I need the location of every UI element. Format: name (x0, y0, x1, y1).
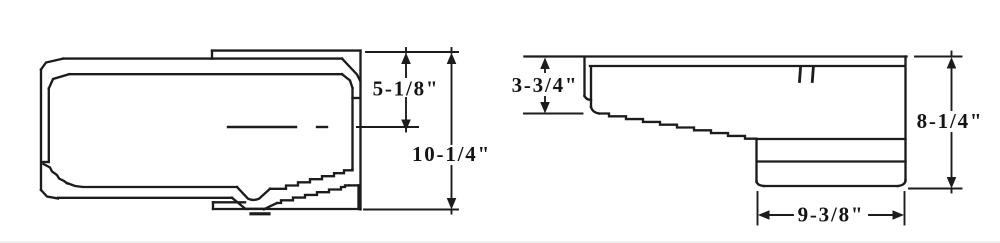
right bottom chamfer (898, 180, 906, 186)
dimension 3-3/4 arrow up (540, 58, 550, 70)
boss tab top edge (213, 201, 245, 203)
svg-text:10-1/4": 10-1/4" (412, 142, 491, 166)
inner stepped diagonal (270, 169, 353, 189)
dimension 9-3/8 shaft left (764, 214, 793, 216)
outer notch rise (264, 203, 277, 209)
extension line right of 9-3/8 (904, 192, 906, 225)
rear rail tab top edge (212, 49, 361, 51)
outer right vertical wall (359, 51, 361, 210)
crankshaft centerline dash short (317, 126, 327, 128)
extension line bottom of 3-3/4 (524, 113, 583, 115)
dimension 8-1/4 arrow up (947, 57, 957, 69)
dimension 3-3/4 shaft upper (544, 63, 546, 72)
sump bottom line (764, 185, 898, 187)
centerline extension to dimension (357, 126, 418, 128)
outer top-left corner chamfer (41, 59, 63, 70)
sump front vertical (755, 139, 757, 182)
oil pan side view (525, 57, 907, 187)
boss tab left edge (212, 202, 214, 209)
dimension 5-1/8 arrow down (401, 120, 411, 132)
inner right tick (353, 97, 360, 99)
top extension line of 8-1/4 (915, 56, 962, 58)
svg-text:8-1/4": 8-1/4" (917, 109, 984, 133)
dim overshoot stub below centerline at 5-1/8 (405, 127, 407, 132)
outer bottom edge left run (58, 197, 232, 199)
inner left tick (43, 161, 49, 163)
rail top edge (525, 55, 907, 57)
inner right vertical (351, 88, 353, 169)
dimension 10-1/4 shaft upper (451, 58, 453, 144)
tick mark 2 on rail (812, 68, 813, 82)
oil pan top view: inner flange outline (43, 74, 360, 200)
outer left vertical wall (40, 70, 42, 191)
crankshaft centerline dash long (228, 126, 296, 128)
inner bottom edge (67, 183, 237, 187)
inner top edge (69, 73, 342, 75)
front chamfer into slope (591, 107, 599, 114)
outer bottom-left corner chamfer (41, 190, 58, 199)
front lip inner vertical (590, 67, 592, 108)
dim overshoot stub above top extension at 5-1/8 (405, 48, 407, 53)
dim overshoot stub below bottom extension at 10-1/4 (451, 210, 453, 214)
outer notch dip left (232, 198, 245, 209)
outer top edge (63, 57, 342, 59)
boss tab bottom edge (213, 208, 247, 210)
front lip bottom (585, 96, 592, 100)
outer stepped diagonal to sump (277, 185, 349, 203)
bottom extension line of 8-1/4 (909, 188, 962, 190)
inner left vertical (48, 89, 50, 163)
top extension line (left view dims) (366, 51, 458, 53)
outer notch bottom (245, 208, 264, 210)
bottom extension line (left view dims) (364, 209, 458, 211)
svg-text:3-3/4": 3-3/4" (512, 73, 579, 97)
dimension 8-1/4 shaft lower (951, 133, 953, 182)
dimension 10-1/4 arrow up (447, 53, 457, 64)
dimension 10-1/4 shaft lower (451, 166, 453, 200)
right end wall (904, 57, 906, 182)
dimension 5-1/8 arrow up (401, 53, 411, 64)
rear rail tab step (211, 51, 213, 59)
drain plug boss bar below notch (251, 212, 269, 215)
svg-text:9-3/8": 9-3/8" (798, 203, 865, 227)
dimension 9-3/8 arrow right (893, 210, 905, 220)
dimension 9-3/8 arrow left (758, 210, 770, 220)
dim overshoot stub above top extension at 10-1/4 (451, 48, 453, 53)
dimension 3-3/4 shaft lower (544, 97, 546, 104)
outer top-right chamfer (342, 59, 360, 81)
sump box bottom edge (247, 208, 361, 210)
rail bottom edge (590, 65, 905, 67)
dimension 5-1/8 shaft lower (405, 98, 407, 121)
sump bottom-left chamfer (757, 181, 765, 186)
inner top-left corner (49, 74, 69, 88)
sump top line (757, 138, 906, 140)
oil pan top view: outer flange outline (41, 51, 361, 210)
dim overshoot stub above top extension at 8-1/4 (951, 52, 953, 57)
dimension 5-1/8 shaft upper (405, 58, 407, 77)
dimension 9-3/8 shaft right (869, 214, 899, 216)
dimension 8-1/4 shaft upper (951, 62, 953, 110)
inner left diagonal (44, 164, 68, 183)
dimension 8-1/4 arrow down (947, 177, 957, 189)
inner notch dip (237, 187, 270, 200)
tick mark 1 on rail (800, 68, 801, 82)
sump middle line (757, 160, 906, 162)
dim overshoot stub below bottom extension at 8-1/4 (951, 189, 953, 193)
dimension 10-1/4 arrow down (447, 198, 457, 210)
svg-text:5-1/8": 5-1/8" (373, 77, 440, 101)
outer diagonal top tick (349, 184, 359, 186)
dimension 3-3/4 arrow down (540, 102, 550, 114)
inner top-right corner (342, 74, 353, 88)
sloped bottom stepped (599, 114, 757, 139)
extension line left of 9-3/8 (757, 192, 759, 225)
front lip outer vertical (583, 58, 585, 96)
bottom page divider band (0, 241, 1000, 243)
sump box right inner drop (357, 185, 359, 209)
